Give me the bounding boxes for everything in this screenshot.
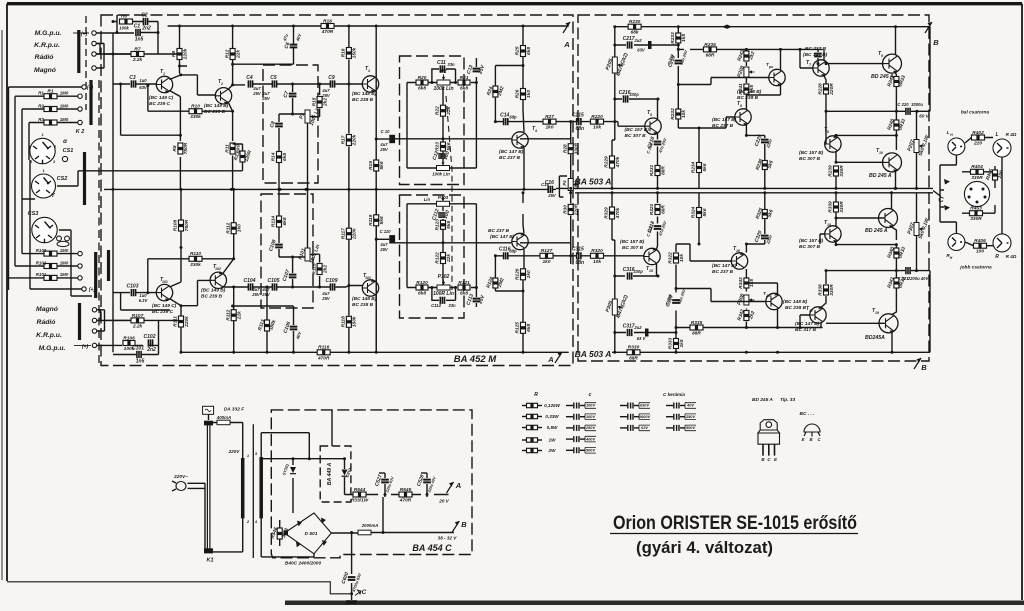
junction dot t5c xyxy=(657,98,660,101)
junction dots x523 lower xyxy=(522,191,525,353)
svg-text:CS2: CS2 xyxy=(57,176,68,182)
wire R102 xyxy=(15,265,78,267)
svg-text:R106: R106 xyxy=(123,335,135,341)
wire T2 emitter xyxy=(228,102,233,141)
resistor R118 150k xyxy=(341,316,358,327)
svg-text:2W: 2W xyxy=(548,448,557,453)
junction dot t9c xyxy=(894,25,897,28)
resistor R241 0R33 xyxy=(886,74,907,87)
svg-text:BA 503 A: BA 503 A xyxy=(575,349,612,359)
svg-text:C3: C3 xyxy=(129,75,136,81)
capacitor C103 1u0 xyxy=(127,283,139,296)
svg-text:R338: R338 xyxy=(818,284,824,296)
svg-text:R321: R321 xyxy=(649,203,655,215)
wire input to T1 xyxy=(113,83,156,85)
junction dot r109 xyxy=(146,257,235,294)
svg-text:BD 245 A: BD 245 A xyxy=(752,397,773,403)
svg-text:α: α xyxy=(63,139,67,145)
wire T15 collector xyxy=(656,264,658,276)
svg-text:1u0: 1u0 xyxy=(139,78,147,83)
svg-text:(+): (+) xyxy=(81,32,88,38)
svg-text:250V: 250V xyxy=(685,414,695,419)
svg-text:R329: R329 xyxy=(604,207,610,219)
svg-text:1k0: 1k0 xyxy=(237,224,243,232)
svg-text:Magnó: Magnó xyxy=(34,67,56,74)
svg-text:K 2: K 2 xyxy=(76,129,85,135)
svg-text:BC 238 B: BC 238 B xyxy=(737,95,759,101)
resistor R10 330k xyxy=(189,104,202,121)
svg-text:6k8: 6k8 xyxy=(460,86,468,92)
capacitor C222e xyxy=(814,54,822,57)
capacitor C316 330p xyxy=(623,267,635,280)
svg-text:K1: K1 xyxy=(206,558,213,564)
svg-text:CS1: CS1 xyxy=(63,148,74,154)
resistor R325 5k6 xyxy=(755,207,775,220)
svg-text:bal csatorna: bal csatorna xyxy=(961,110,990,116)
wire c527 c528 tops xyxy=(385,495,427,498)
wire T7 emitter chain xyxy=(824,76,826,145)
capacitor C528 220u xyxy=(416,474,431,487)
svg-text:2200u 40V: 2200u 40V xyxy=(907,276,930,281)
resistor R406 100R xyxy=(974,238,987,255)
wire y121.6 xyxy=(495,122,644,127)
node C arrow xyxy=(929,188,941,196)
svg-text:10k: 10k xyxy=(593,259,601,265)
svg-text:400V: 400V xyxy=(585,436,595,441)
capacitor C10 4u7 25V xyxy=(389,135,395,143)
svg-text:(BC 149 B): (BC 149 B) xyxy=(204,103,229,109)
capacitor C107 xyxy=(282,269,297,282)
svg-text:BC 237 B: BC 237 B xyxy=(499,155,521,161)
capacitor C315 68n xyxy=(572,247,584,266)
resistor R9 220k xyxy=(171,48,188,60)
resistor R239 330R xyxy=(828,165,845,177)
vertical x764 chain xyxy=(764,135,766,188)
svg-text:10: 10 xyxy=(879,151,883,155)
svg-text:C109: C109 xyxy=(326,278,338,284)
potentiometer P205 2k2 xyxy=(605,52,630,77)
capacitor C12 1u0 xyxy=(432,150,452,161)
svg-text:BA 503 A: BA 503 A xyxy=(575,177,612,187)
svg-text:470R: 470R xyxy=(321,29,334,35)
svg-text:R15: R15 xyxy=(311,97,317,106)
vertical x523 chain xyxy=(523,26,524,189)
svg-text:A: A xyxy=(563,40,569,49)
svg-text:(BC 148 B): (BC 148 B) xyxy=(352,296,377,302)
wire T17 collector xyxy=(820,323,822,328)
svg-text:1M0: 1M0 xyxy=(60,272,69,277)
svg-text:220V~: 220V~ xyxy=(173,474,188,480)
capacitor C108e xyxy=(268,239,283,252)
resistor R2 1M0 xyxy=(44,107,57,112)
capacitor C109 4u7 xyxy=(326,278,338,291)
svg-text:330p: 330p xyxy=(629,92,639,97)
supply rail top (right half) xyxy=(615,26,930,28)
wire R1 xyxy=(15,95,78,97)
capacitor C6 47u 40V xyxy=(283,41,297,49)
wire C10 line y139 xyxy=(376,138,389,140)
scan edge band bottom xyxy=(285,601,1024,606)
svg-text:C14: C14 xyxy=(500,112,509,118)
svg-text:6k8: 6k8 xyxy=(460,291,468,297)
speaker jack LH xyxy=(948,138,965,155)
svg-text:1W: 1W xyxy=(549,438,557,443)
junction dots t8 xyxy=(835,134,898,164)
svg-text:B40C 2400/2000: B40C 2400/2000 xyxy=(285,561,322,567)
svg-text:R27: R27 xyxy=(545,114,554,120)
capacitor C11 33n xyxy=(437,60,446,73)
wire T2 base xyxy=(181,75,216,95)
svg-text:220k: 220k xyxy=(352,228,358,240)
wire LH to DIN xyxy=(940,155,1002,190)
switch wafer bar S1a xyxy=(77,30,80,73)
resistor R329 470k xyxy=(604,207,621,219)
resistor R107 2.2k xyxy=(131,313,144,330)
wire T2 collector to y84 xyxy=(228,85,245,90)
capacitor C219 68u 25V xyxy=(667,55,682,68)
resistor R1 1M0 xyxy=(44,89,57,99)
node B arrow top right xyxy=(925,22,939,47)
resistor R339 330R xyxy=(828,201,845,213)
junction dots t201 xyxy=(745,326,779,329)
junction dots x523 xyxy=(522,25,526,191)
svg-text:(BC 147 B): (BC 147 B) xyxy=(490,234,515,240)
transistor T103 xyxy=(362,279,378,296)
svg-text:R2: R2 xyxy=(38,103,44,108)
svg-text:P3: P3 xyxy=(440,155,446,161)
wire T5 collector xyxy=(657,99,660,119)
resistor R6 100k xyxy=(120,19,133,24)
svg-text:250V: 250V xyxy=(585,425,595,430)
transistor T101 xyxy=(156,284,172,301)
svg-text:B: B xyxy=(933,38,939,47)
junction dots t1e xyxy=(119,73,182,136)
transistor T8 xyxy=(825,135,841,152)
svg-text:R6: R6 xyxy=(121,14,127,19)
svg-text:6k8: 6k8 xyxy=(418,86,426,92)
capacitor C218 47u 25V xyxy=(646,136,661,149)
svg-text:R343: R343 xyxy=(738,277,744,289)
rotary switch CS3 xyxy=(32,217,57,242)
svg-text:1: 1 xyxy=(41,133,43,137)
svg-text:2u2: 2u2 xyxy=(633,38,642,43)
vertical x348 chain xyxy=(348,26,350,189)
legend resistor 2W xyxy=(522,450,526,452)
svg-text:750R: 750R xyxy=(184,219,190,231)
svg-text:10k: 10k xyxy=(681,110,687,118)
potentiometer P103 100k Lin xyxy=(437,196,450,207)
node A arrow psu xyxy=(447,481,462,493)
wire R7 line y54 xyxy=(104,53,180,55)
resistor R322 10k xyxy=(668,252,685,264)
svg-text:R20: R20 xyxy=(418,75,427,81)
bus BA503 lower y192.8 xyxy=(575,192,929,194)
junction dots c6 xyxy=(231,25,321,86)
junction dot t17b xyxy=(799,326,802,329)
svg-text:330R: 330R xyxy=(829,284,835,296)
svg-text:(BC 147 B): (BC 147 B) xyxy=(499,149,524,155)
svg-text:220k: 220k xyxy=(182,48,188,60)
svg-text:BA 452 M: BA 452 M xyxy=(454,354,497,365)
potentiometer P308 xyxy=(736,293,754,306)
svg-text:C kerámia: C kerámia xyxy=(663,392,685,397)
svg-text:BC 307 B: BC 307 B xyxy=(622,245,644,251)
svg-text:R239: R239 xyxy=(828,165,834,177)
wire T6 base xyxy=(726,117,735,120)
transistor T16 xyxy=(731,252,747,269)
svg-text:BA 454 C: BA 454 C xyxy=(412,543,452,553)
svg-text:R18: R18 xyxy=(341,48,347,57)
wire T18 leads xyxy=(820,218,896,245)
terminal (+) lower-mid xyxy=(82,287,86,291)
svg-text:68p: 68p xyxy=(509,115,517,120)
svg-text:4: 4 xyxy=(534,129,537,133)
svg-text:0,5W: 0,5W xyxy=(547,425,558,430)
svg-text:R 4Ω: R 4Ω xyxy=(1006,132,1017,137)
svg-text:R101: R101 xyxy=(36,272,47,277)
capacitor C319 68u 25V xyxy=(665,294,680,307)
svg-text:C104: C104 xyxy=(244,278,256,284)
legend capacitor 400V xyxy=(566,438,573,440)
svg-text:R7: R7 xyxy=(134,46,140,52)
junction dots x676 lower xyxy=(675,326,678,354)
junction dots x570 xyxy=(569,187,572,257)
capacitor C104 4u7 25V xyxy=(244,278,256,291)
svg-text:BD245A: BD245A xyxy=(865,335,885,341)
svg-text:19: 19 xyxy=(875,311,879,315)
junction dot t7b xyxy=(799,48,802,51)
resistor R108b 750R xyxy=(173,219,190,231)
svg-text:1: 1 xyxy=(163,72,165,76)
svg-text:500V: 500V xyxy=(586,448,595,453)
wire P101 top to bus xyxy=(307,189,309,248)
resistor R111 220k xyxy=(173,316,190,328)
svg-text:6.3V: 6.3V xyxy=(139,298,149,303)
legend capacitor 160V xyxy=(566,416,573,418)
svg-text:R545: R545 xyxy=(400,487,412,493)
svg-text:63 V: 63 V xyxy=(637,336,647,341)
resistor R234 5k6 xyxy=(698,128,700,188)
junction dots tpu xyxy=(745,48,782,51)
resistor R232 10k xyxy=(670,108,687,120)
svg-text:201: 201 xyxy=(765,294,772,298)
vertical tone center chain xyxy=(442,86,444,162)
wire r24 bottom xyxy=(494,98,496,122)
resistor R127 1k0 xyxy=(540,248,553,265)
wire c16 xyxy=(543,188,556,190)
transistor T104 xyxy=(512,233,528,250)
svg-text:R103: R103 xyxy=(36,248,47,253)
svg-text:R232: R232 xyxy=(670,108,676,120)
svg-text:68R: 68R xyxy=(692,331,701,337)
svg-text:R322: R322 xyxy=(668,252,674,264)
wire R107 row xyxy=(104,319,181,321)
svg-text:R123: R123 xyxy=(435,219,441,231)
wire base line y242.8 xyxy=(395,243,571,256)
svg-text:0,125W: 0,125W xyxy=(544,403,560,408)
wire C110 line y239 xyxy=(376,238,389,240)
svg-text:Rádió: Rádió xyxy=(37,319,56,326)
junction dots t18 xyxy=(835,217,898,247)
resistor R115 2k2 xyxy=(311,263,328,274)
svg-text:2n2: 2n2 xyxy=(141,26,151,32)
svg-text:R17: R17 xyxy=(341,135,347,144)
resistor R545 470R xyxy=(399,487,412,504)
title underline xyxy=(610,533,858,535)
svg-text:630V: 630V xyxy=(640,403,649,408)
resistor R125 6k8 xyxy=(515,322,532,334)
wire c601 chain xyxy=(352,497,383,594)
junction dots x231 lower xyxy=(232,188,235,354)
svg-text:C 10: C 10 xyxy=(381,129,391,134)
junction dots x181 xyxy=(180,188,183,354)
svg-text:25V: 25V xyxy=(251,292,261,297)
junction dots outline xyxy=(825,110,919,113)
legend resistor 0,33W xyxy=(522,416,526,418)
wire T16 base xyxy=(690,244,731,261)
svg-text:22k: 22k xyxy=(237,311,243,320)
svg-text:6k8: 6k8 xyxy=(282,217,288,225)
svg-text:25V: 25V xyxy=(379,247,389,252)
fuse holder mains xyxy=(203,406,214,414)
svg-text:C101: C101 xyxy=(132,345,144,351)
resistor R113 180k xyxy=(257,319,278,332)
svg-text:100V: 100V xyxy=(586,403,595,408)
ground rail bottom-left xyxy=(7,582,353,594)
potentiometer P208 xyxy=(736,65,754,78)
capacitor C14 68p xyxy=(500,112,509,125)
inner dashed box volume upper (P1) xyxy=(263,65,318,183)
vertical x348 lower chain xyxy=(348,189,350,352)
wire T9 emitter xyxy=(895,73,898,77)
resistor R11 1k0 xyxy=(224,143,241,154)
svg-text:22k: 22k xyxy=(235,50,241,59)
resistor R341 0R33 xyxy=(886,276,907,289)
svg-text:CS3: CS3 xyxy=(28,211,39,217)
CS interconnect wires xyxy=(22,160,243,296)
svg-text:1M0: 1M0 xyxy=(60,103,69,108)
vertical x615 chain xyxy=(614,27,616,122)
potentiometer P102 100R Lin xyxy=(433,274,454,297)
vertical x523 lower chain xyxy=(523,193,524,352)
svg-text:C5: C5 xyxy=(270,75,277,81)
transistor T18 xyxy=(825,226,841,243)
svg-text:R112: R112 xyxy=(225,222,231,233)
module box BA503A xyxy=(578,15,929,361)
resistor R17 220k xyxy=(341,134,358,146)
resistor R404 330R xyxy=(971,164,984,181)
legend capacitor 1600V xyxy=(620,416,627,418)
svg-text:P2: P2 xyxy=(440,69,446,75)
svg-text:25V: 25V xyxy=(547,193,557,198)
legend capacitor 630V xyxy=(620,405,627,407)
svg-text:BC 239 B: BC 239 B xyxy=(204,109,226,115)
transistor T1 xyxy=(156,76,172,93)
svg-text:20 V: 20 V xyxy=(438,499,449,504)
svg-text:R118: R118 xyxy=(341,316,347,327)
capacitor C9 4u7 xyxy=(328,75,335,88)
svg-text:220R: 220R xyxy=(829,83,835,96)
svg-text:K.R.p.u.: K.R.p.u. xyxy=(34,42,60,49)
wire fuse row xyxy=(209,414,243,458)
svg-text:C102: C102 xyxy=(144,334,156,340)
svg-text:6k8: 6k8 xyxy=(282,153,288,161)
switch wafer bar S1b xyxy=(78,303,81,340)
capacitor C317 2u2 63V xyxy=(623,323,635,336)
capacitor C5 4u7 25V xyxy=(270,75,277,88)
resistor R402 220R xyxy=(972,130,985,147)
inner dashed box volume lower (P101) xyxy=(261,194,313,308)
wire T8 collector/emitter xyxy=(836,135,896,163)
svg-text:5k6: 5k6 xyxy=(379,161,385,169)
svg-text:R116: R116 xyxy=(318,345,329,351)
resistor R24 2M2 xyxy=(486,85,506,97)
svg-text:C1: C1 xyxy=(134,23,141,29)
capacitor C216 330p xyxy=(619,90,631,103)
node A arrow bottom xyxy=(547,352,562,364)
svg-text:(BC 149 B): (BC 149 B) xyxy=(201,288,226,294)
svg-text:(BC 157 B): (BC 157 B) xyxy=(625,127,650,133)
svg-text:Orion ORISTER SE-1015 erősít: Orion ORISTER SE-1015 erősítő xyxy=(613,513,857,534)
legend resistor 0,125W xyxy=(522,405,526,407)
svg-text:1M0: 1M0 xyxy=(60,91,69,96)
svg-text:R122: R122 xyxy=(435,252,441,264)
svg-text:1k0: 1k0 xyxy=(545,125,553,131)
vertical x746 chain xyxy=(746,49,764,135)
wire r6-c2 xyxy=(133,22,159,55)
transistor Tpu xyxy=(769,69,785,86)
capacitor C106 47u 40V xyxy=(282,321,297,334)
svg-text:M.G.p.u.: M.G.p.u. xyxy=(35,30,62,37)
svg-text:330k: 330k xyxy=(190,262,201,268)
junction dots tone lower xyxy=(430,286,478,289)
wire C527 ground stub xyxy=(382,497,384,533)
wire input to T101 xyxy=(113,292,156,294)
resistor R124 2M2 xyxy=(485,276,505,289)
svg-text:(BC 147 B): (BC 147 B) xyxy=(712,117,737,123)
supply rail bottom (left half) xyxy=(181,351,569,353)
capacitor C113 el xyxy=(465,293,486,306)
capacitor C112 1u0 xyxy=(431,208,451,221)
svg-text:1k0: 1k0 xyxy=(526,90,532,98)
svg-text:M.G.p.u.: M.G.p.u. xyxy=(39,345,66,352)
svg-text:63V: 63V xyxy=(641,425,648,430)
svg-text:R3: R3 xyxy=(38,117,44,122)
rotary switch CS2 xyxy=(32,174,56,198)
resistor R28 330R xyxy=(562,142,579,154)
svg-text:R: R xyxy=(534,392,538,398)
transistor T2 xyxy=(215,88,231,105)
junction dots x615 xyxy=(613,25,616,123)
resistor R8 750R xyxy=(172,142,189,154)
svg-text:L: L xyxy=(947,130,950,135)
vertical R12 xyxy=(232,26,234,85)
transistor T7 xyxy=(813,60,829,77)
svg-text:BC 238 B: BC 238 B xyxy=(352,302,374,308)
svg-text:R402: R402 xyxy=(972,130,984,136)
vertical tone center lower xyxy=(442,207,444,288)
wire r124 xyxy=(495,256,523,291)
svg-text:C: C xyxy=(362,589,367,596)
tone loop C114 lower xyxy=(432,288,456,301)
transformer winding bar 2 xyxy=(259,457,263,519)
potentiometer P2 100k Lin xyxy=(433,69,453,92)
capacitor C601 4700u xyxy=(341,571,356,584)
svg-text:8: 8 xyxy=(827,130,829,134)
speaker jack RH xyxy=(948,234,965,251)
svg-text:330R: 330R xyxy=(839,165,845,177)
svg-text:(+): (+) xyxy=(82,344,89,350)
